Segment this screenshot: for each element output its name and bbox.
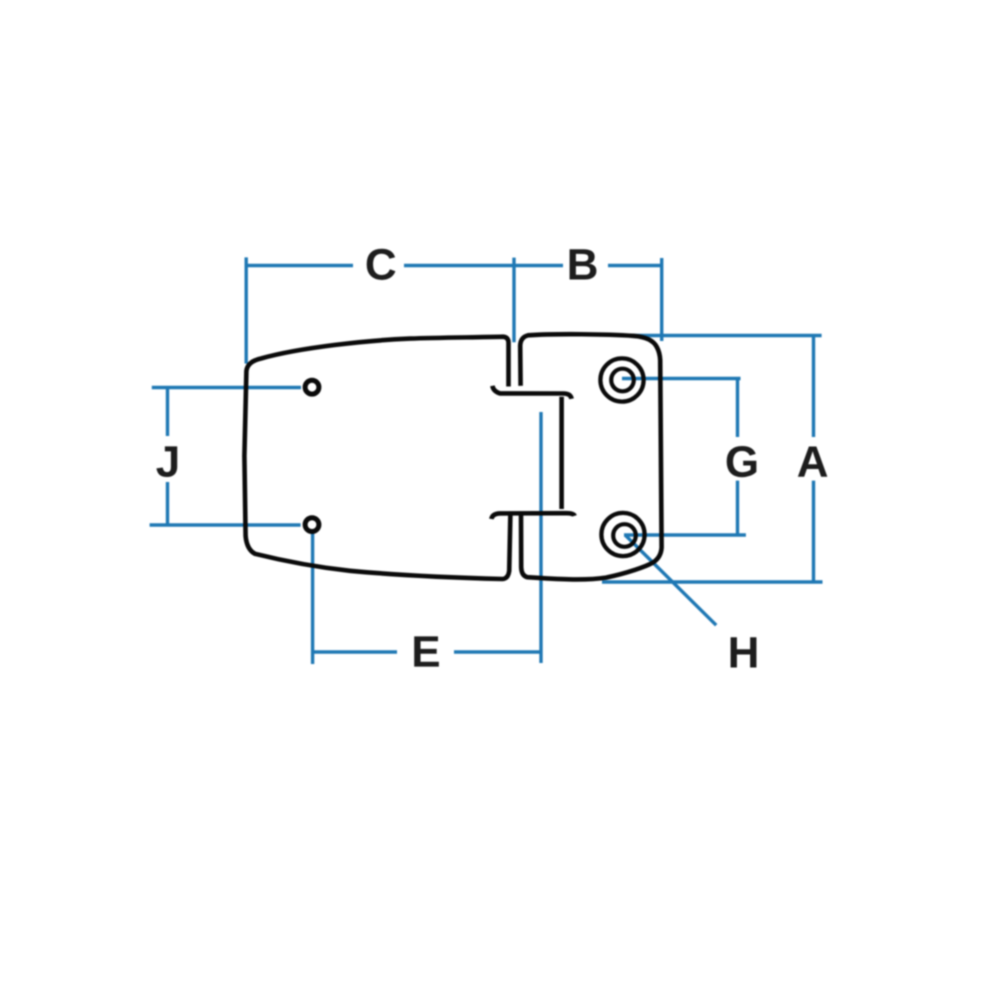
dimension B right extension tick	[660, 258, 663, 341]
dimension G bottom extension	[624, 533, 746, 536]
dimension G vertical line	[736, 379, 739, 536]
left plate screw hole top	[305, 380, 319, 394]
dimension A vertical line	[812, 337, 815, 583]
svg-text:H: H	[728, 628, 760, 677]
right plate top screw hole inner ring	[611, 369, 634, 392]
dimension A top extension	[625, 334, 822, 337]
dimension J vertical line	[166, 388, 169, 526]
right plate top screw hole outer ring	[600, 358, 643, 401]
dimension E right extension	[539, 412, 542, 663]
blue dimension line group	[150, 257, 823, 664]
hinge center tongue top edge	[492, 386, 571, 399]
right plate bottom screw hole inner ring	[613, 524, 636, 547]
hinge outline group	[244, 334, 661, 579]
dimension C left extension tick	[244, 257, 247, 363]
svg-text:B: B	[567, 241, 599, 290]
dimension J top extension	[152, 386, 301, 389]
hinge right plate outline	[520, 334, 661, 579]
dimension A bottom extension	[602, 580, 823, 583]
leader line H	[625, 535, 716, 625]
dimension C/B divider extension	[512, 258, 515, 343]
right plate bottom screw hole outer ring	[601, 513, 644, 556]
left plate screw hole bottom	[305, 518, 319, 532]
dimension E left extension	[311, 531, 314, 664]
dimension J bottom extension	[150, 523, 301, 526]
svg-text:E: E	[411, 628, 440, 677]
svg-text:G: G	[725, 438, 759, 487]
dimension E horizontal line	[313, 650, 541, 653]
dimension G top extension	[622, 377, 741, 380]
svg-text:A: A	[797, 438, 829, 487]
dimension C/B horizontal line	[247, 264, 662, 267]
hinge center tongue bottom edge	[491, 513, 574, 519]
svg-text:C: C	[365, 240, 397, 289]
hinge left plate outline	[244, 337, 510, 579]
svg-text:J: J	[156, 438, 181, 487]
hinge pin right edge	[559, 397, 564, 509]
